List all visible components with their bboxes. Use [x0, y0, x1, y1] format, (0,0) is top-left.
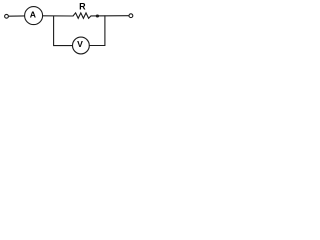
svg-text:V: V [77, 39, 83, 49]
svg-text:A: A [30, 10, 36, 20]
terminal left [5, 14, 9, 18]
resistor R [73, 13, 91, 18]
wire (bottom-right and right branch up) [89, 16, 105, 46]
wire (left branch down and bottom-left) [54, 16, 73, 46]
ammeter A [25, 7, 43, 25]
wire [43, 15, 73, 17]
svg-text:R: R [79, 1, 86, 11]
terminal right [129, 14, 133, 18]
wire [91, 15, 129, 17]
wire [9, 15, 25, 17]
node junction [96, 15, 99, 18]
voltmeter V [73, 37, 90, 54]
